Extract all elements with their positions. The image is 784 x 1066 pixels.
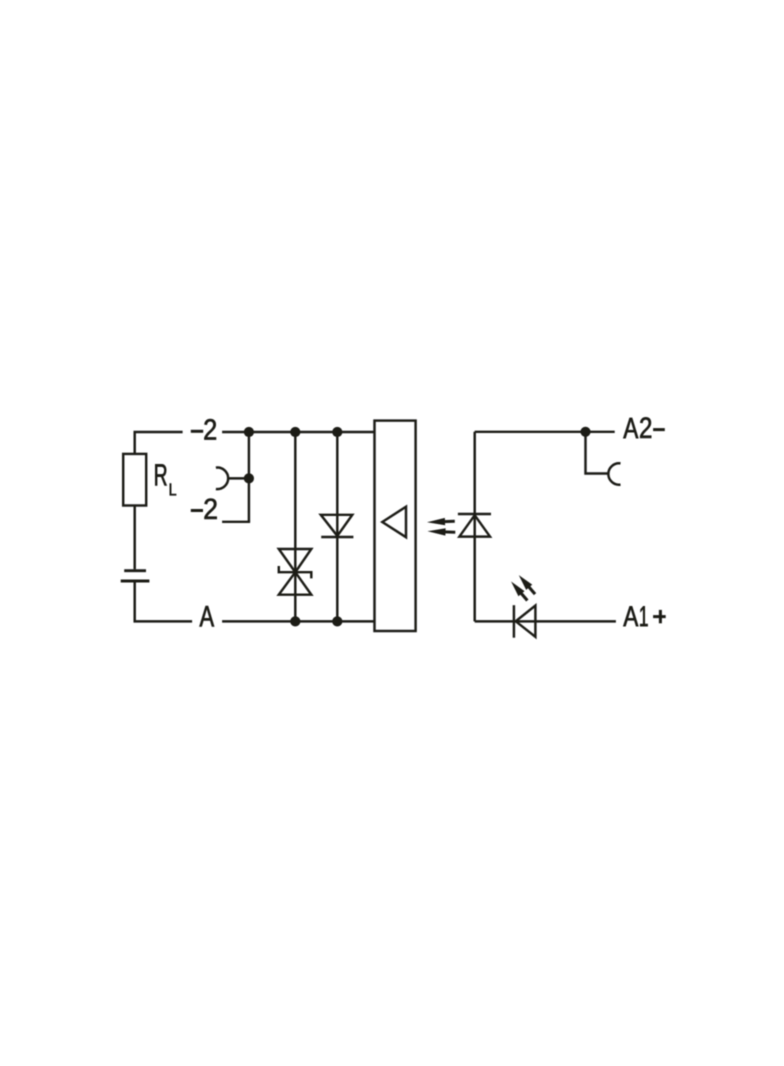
terminal label A left — [200, 606, 215, 627]
wire L from lower -2 terminal — [222, 521, 250, 523]
wire battery to bottom corner — [135, 582, 192, 621]
suppressor diode TVS zener bar — [279, 566, 312, 578]
photodiode cathode bar — [458, 513, 491, 515]
minus sign A2 — [653, 428, 665, 431]
terminal label -2 bottom: digit 2 — [205, 499, 217, 519]
junction dot top clamp — [244, 427, 254, 437]
junction dot TVS bottom — [290, 616, 300, 626]
light arrow opto lower — [427, 528, 455, 536]
light arrow LED right — [516, 573, 538, 597]
clamp contact arc right — [608, 463, 620, 484]
light arrow opto upper — [427, 518, 455, 526]
junction dot diode top — [332, 427, 342, 437]
wire right vertical (photodiode branch) — [473, 432, 475, 622]
battery plate bottom — [121, 580, 150, 583]
resistor label subscript L — [170, 484, 176, 496]
wire bottom-right horizontal — [475, 620, 616, 622]
wire bottom middle (after A label to coupler box) — [222, 620, 374, 622]
minus sign bottom-left — [191, 509, 203, 512]
junction dot A2 — [580, 427, 590, 437]
wire clamp branch vertical — [248, 432, 250, 522]
clamp contact arc left — [216, 467, 228, 489]
junction dot TVS top — [290, 427, 300, 437]
wire top middle (after -2 label to coupler box) — [222, 431, 374, 433]
resistor label R — [155, 464, 166, 485]
wire A2 clamp drop — [586, 432, 608, 474]
suppressor diode TVS top triangle — [279, 549, 312, 572]
light arrow LED left — [508, 579, 530, 603]
minus sign top-left — [191, 430, 203, 433]
terminal label A1 — [623, 606, 638, 626]
diode triangle — [321, 515, 353, 536]
indicator LED triangle — [516, 606, 536, 637]
wire clamp stub horizontal — [228, 477, 249, 479]
indicator LED cathode bar — [513, 605, 515, 638]
suppressor diode TVS bottom triangle — [279, 572, 312, 595]
junction dot clamp mid — [244, 473, 254, 483]
diode cathode bar — [321, 536, 353, 538]
optocoupler output box — [375, 421, 416, 631]
wire TVS branch vertical — [294, 432, 296, 621]
terminal label -2 top: digit 2 — [204, 419, 216, 440]
wire resistor to battery — [133, 506, 135, 570]
plus sign A1 horizontal — [653, 615, 666, 618]
junction dot diode bottom — [332, 616, 342, 626]
plus sign A1 vertical — [659, 610, 662, 623]
photodiode triangle — [459, 515, 490, 536]
optocoupler amplifier triangle — [382, 507, 406, 538]
battery plate top — [124, 569, 146, 572]
terminal label A2 — [623, 418, 638, 438]
resistor RL — [123, 454, 146, 506]
wire top-left horizontal — [135, 432, 183, 454]
wire top-right horizontal — [475, 431, 615, 433]
wire diode branch vertical — [336, 432, 338, 621]
